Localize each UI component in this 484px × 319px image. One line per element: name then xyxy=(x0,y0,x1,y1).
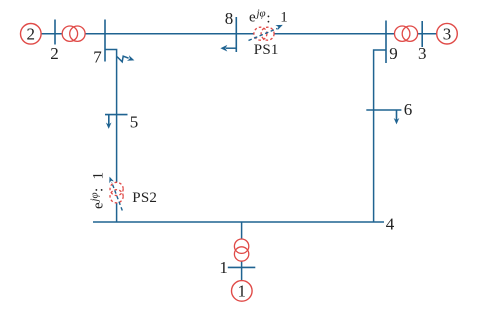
phase shifter PS1 xyxy=(249,25,283,41)
svg-text:1: 1 xyxy=(219,258,228,277)
svg-text:5: 5 xyxy=(130,112,139,131)
generator G3 xyxy=(437,23,458,44)
svg-text:PS2: PS2 xyxy=(132,190,157,206)
svg-text:e: e xyxy=(249,9,256,25)
svg-text:2: 2 xyxy=(50,44,59,63)
svg-text:PS1: PS1 xyxy=(254,42,279,58)
svg-text:6: 6 xyxy=(404,100,413,119)
svg-text:7: 7 xyxy=(93,47,102,66)
bus 9 xyxy=(386,21,398,64)
wire: main top line xyxy=(41,33,437,35)
svg-text:1: 1 xyxy=(238,281,247,300)
PS2 ratio label e^jphi : 1 (rotated) xyxy=(89,172,107,209)
arrow at bus 8 pointing left xyxy=(220,45,236,52)
bus 2 xyxy=(50,20,59,64)
svg-text:1: 1 xyxy=(280,9,288,25)
svg-text:1: 1 xyxy=(91,172,107,180)
phase shifter PS2 xyxy=(109,177,123,211)
wire: bus9 stub and right vertical feeder to bottom bus xyxy=(374,50,386,222)
wire: bottom horizontal line (bus 4) xyxy=(93,221,384,223)
bus 7 xyxy=(93,20,105,67)
wire: branch from bus 4 down to generator 1 xyxy=(241,222,243,281)
zigzag tap arrow at bus 7 xyxy=(117,55,134,62)
bus 1 xyxy=(219,258,255,277)
svg-text:3: 3 xyxy=(418,44,427,63)
svg-text:2: 2 xyxy=(27,24,36,43)
svg-text:4: 4 xyxy=(386,214,395,233)
bus 6 with load arrow xyxy=(366,100,412,124)
svg-text:3: 3 xyxy=(443,24,452,43)
transformer T3 (bus9-bus3) xyxy=(395,26,418,41)
bus 3 xyxy=(418,21,427,63)
generator G1 xyxy=(232,281,253,302)
transformer T2 (bus2-bus7) xyxy=(62,26,85,41)
PS1 ratio label e^jphi : 1 xyxy=(249,8,288,27)
bus 8 xyxy=(225,9,237,52)
svg-text:jφ: jφ xyxy=(89,192,101,203)
transformer T1 (bus4-bus1) xyxy=(234,239,248,261)
wire: bus7 stub and left vertical feeder to bottom bus xyxy=(105,50,117,223)
svg-text:jφ: jφ xyxy=(255,8,266,20)
svg-text::: : xyxy=(266,11,270,27)
generator G2 xyxy=(21,24,42,45)
svg-text:8: 8 xyxy=(225,9,234,28)
svg-text:e: e xyxy=(91,202,107,209)
svg-text::: : xyxy=(91,188,107,192)
svg-text:9: 9 xyxy=(389,44,398,63)
bus 5 with load arrow xyxy=(105,112,138,131)
